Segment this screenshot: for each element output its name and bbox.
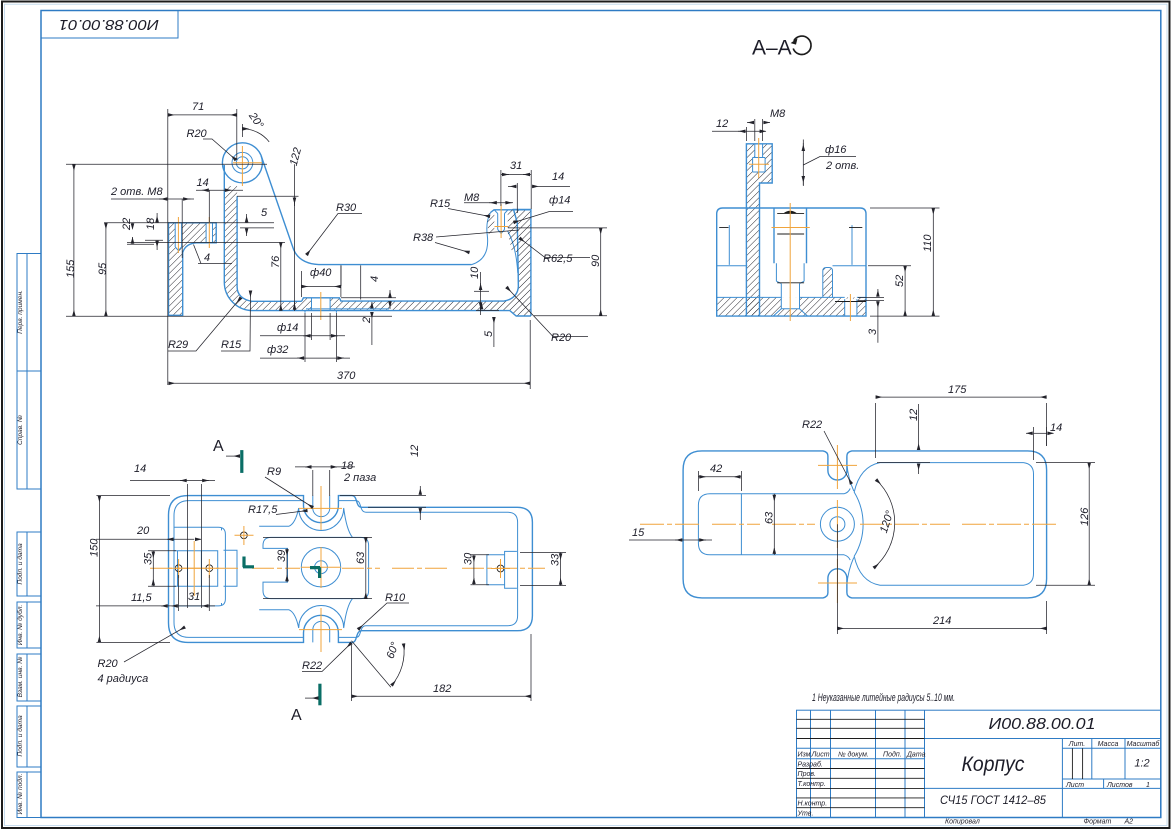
- svg-text:Инв. № дубл.: Инв. № дубл.: [16, 605, 24, 646]
- flange hole centerline: [758, 138, 760, 178]
- M8 hole 1 (left wall): [175, 223, 181, 251]
- svg-text:ф14: ф14: [549, 195, 570, 207]
- dim 4 gap: [194, 245, 233, 265]
- outer contour with slot notches: [683, 451, 1047, 598]
- svg-text:А: А: [291, 707, 302, 724]
- right wall top face and M8 hole: [491, 210, 531, 213]
- dim 20 deg: [242, 110, 269, 142]
- label R15 bottom: [221, 291, 251, 352]
- label R9: [265, 466, 313, 508]
- svg-text:R22: R22: [802, 419, 822, 431]
- dim 10: [469, 266, 489, 315]
- svg-text:71: 71: [192, 101, 204, 113]
- boss left side and R38 fillet: [472, 213, 491, 265]
- svg-text:А–А: А–А: [752, 37, 792, 60]
- thread runout mark: [784, 211, 797, 214]
- title block: [797, 710, 1161, 825]
- inner boss outline: [823, 268, 833, 298]
- dim 155: [65, 164, 392, 316]
- dim 20: [96, 525, 201, 539]
- svg-text:Масштаб: Масштаб: [1127, 740, 1161, 748]
- M8 hole in flange: [755, 144, 763, 158]
- svg-text:R22: R22: [302, 660, 322, 672]
- dim 42: [698, 463, 741, 491]
- svg-text:№ докум.: № докум.: [838, 751, 869, 759]
- dim 35: [143, 551, 177, 587]
- svg-text:18: 18: [341, 460, 354, 472]
- svg-text:5: 5: [483, 330, 495, 337]
- svg-text:90: 90: [590, 254, 602, 267]
- right pad: [487, 551, 517, 588]
- dim 12: [877, 404, 930, 474]
- tab with R20 hole: [261, 156, 471, 265]
- svg-text:Формат: Формат: [1084, 819, 1112, 826]
- svg-text:Инв. № подл.: Инв. № подл.: [16, 773, 24, 814]
- svg-text:R30: R30: [336, 202, 357, 214]
- svg-text:12: 12: [409, 445, 421, 457]
- label R20 top: [187, 128, 237, 160]
- label R20 bottom right: [507, 287, 589, 344]
- bottom plate top edge: [717, 296, 866, 298]
- dim 11,5 and 31: [96, 575, 215, 611]
- label phi14 right: [514, 195, 574, 223]
- svg-text:Изм.: Изм.: [798, 752, 813, 759]
- dim 2 step: [361, 302, 373, 345]
- svg-text:Разраб.: Разраб.: [798, 760, 823, 768]
- dim 30: [463, 552, 490, 585]
- dim 60 deg: [352, 640, 405, 687]
- right pad hole: [497, 565, 504, 572]
- label R29: [168, 298, 241, 352]
- svg-text:150: 150: [89, 538, 101, 557]
- svg-text:ф16: ф16: [825, 144, 847, 156]
- svg-text:Утв.: Утв.: [797, 810, 814, 817]
- svg-text:12: 12: [908, 409, 920, 421]
- svg-text:R20: R20: [551, 332, 572, 344]
- svg-text:63: 63: [764, 511, 776, 524]
- svg-text:А: А: [213, 438, 224, 455]
- central boss: [301, 548, 340, 587]
- svg-text:182: 182: [433, 683, 451, 695]
- bore thread lines black: [777, 213, 804, 282]
- svg-text:Подп. и дата: Подп. и дата: [16, 543, 24, 585]
- svg-text:R20: R20: [187, 128, 208, 140]
- tab left edge / rib: [224, 165, 531, 316]
- right phi16 hole: [845, 299, 857, 316]
- small hole upper middle: [241, 532, 248, 539]
- dim 3: [858, 289, 884, 343]
- base top with phi40 boss: [302, 210, 531, 317]
- svg-text:15: 15: [632, 527, 645, 539]
- circle R20 hole rings: [232, 152, 253, 173]
- svg-text:3: 3: [867, 328, 879, 335]
- slot side fillets to waist: [847, 457, 854, 592]
- section label A-A with rotation symbol: [752, 36, 811, 59]
- svg-text:370: 370: [337, 370, 356, 382]
- inner contour: [174, 501, 518, 638]
- svg-text:95: 95: [97, 262, 109, 275]
- pad hole 2: [206, 565, 213, 572]
- dim 95: [97, 223, 274, 316]
- dim 370: [169, 320, 531, 389]
- dim 18 slot: [295, 460, 376, 496]
- dim 14: [1026, 422, 1062, 460]
- top-left document number box: [41, 11, 178, 39]
- svg-text:R17,5: R17,5: [248, 504, 278, 516]
- left channel: [698, 489, 850, 561]
- svg-text:R29: R29: [168, 339, 188, 351]
- dim 76: [270, 242, 282, 310]
- base hole centerline orange: [320, 292, 322, 320]
- inner right wall edge: [504, 210, 518, 302]
- central boss circles: [820, 507, 854, 541]
- central opening with 39 notch: [263, 537, 369, 598]
- dim 182: [352, 634, 532, 701]
- title block texts: [797, 740, 1161, 826]
- svg-text:2 отв.: 2 отв.: [825, 160, 859, 172]
- dim 71: [168, 101, 237, 385]
- svg-text:214: 214: [932, 615, 951, 627]
- orange centerlines: [150, 567, 545, 569]
- svg-text:14: 14: [197, 177, 209, 189]
- svg-text:ф32: ф32: [267, 344, 288, 356]
- svg-text:Перв. примен.: Перв. примен.: [17, 290, 24, 334]
- black row lines in left table: [797, 719, 1083, 807]
- M8 hole 2 (boss): [206, 223, 212, 243]
- dim 120 deg: [874, 480, 897, 568]
- background boss edges seen through section: [341, 265, 361, 299]
- svg-text:Корпус: Корпус: [962, 753, 1025, 776]
- svg-text:R20: R20: [98, 658, 119, 670]
- svg-text:М8: М8: [770, 108, 786, 120]
- svg-text:63: 63: [355, 551, 367, 564]
- dim 214: [837, 524, 1046, 634]
- dim 90 right: [508, 228, 607, 316]
- label phi16 2 otv: [803, 140, 859, 187]
- dim 14 right: [508, 171, 570, 213]
- label R10: [358, 592, 409, 630]
- svg-text:30: 30: [463, 552, 475, 565]
- top slot boss: [259, 508, 352, 537]
- hatched bottom plate: [717, 297, 866, 316]
- small hatch near M8 boss: [487, 210, 518, 253]
- left pocket: [174, 527, 225, 606]
- svg-text:2 паза: 2 паза: [343, 472, 376, 484]
- label R30: [307, 202, 363, 255]
- svg-text:1 Неуказанные литейные радиусы: 1 Неуказанные литейные радиусы 5..10 мм.: [812, 692, 955, 704]
- body outline: [717, 208, 866, 316]
- svg-text:175: 175: [948, 384, 967, 396]
- svg-text:1: 1: [1146, 782, 1150, 789]
- outer blue lines of title block: [797, 710, 1161, 817]
- svg-text:Взам. инв. №: Взам. инв. №: [17, 657, 24, 698]
- svg-text:2 отв. М8: 2 отв. М8: [110, 186, 163, 198]
- label R62,5: [520, 238, 591, 265]
- svg-text:R62,5: R62,5: [543, 253, 573, 265]
- dim 14 left: [196, 177, 243, 190]
- svg-text:42: 42: [710, 463, 722, 475]
- dim M8 flange: [747, 108, 786, 141]
- dim phi14 bottom: [260, 313, 345, 340]
- svg-text:Лист: Лист: [1065, 782, 1084, 789]
- label R38: [413, 230, 519, 253]
- svg-text:R9: R9: [267, 466, 281, 478]
- dim 63: [764, 494, 776, 555]
- dim 126: [1036, 463, 1095, 586]
- dim phi40: [301, 265, 341, 297]
- orange centerlines: [640, 523, 1058, 525]
- svg-text:110: 110: [922, 234, 934, 252]
- svg-text:4 радиуса: 4 радиуса: [98, 673, 149, 685]
- blue outline: left wall + boss: [169, 223, 217, 315]
- dim 18: [145, 213, 163, 250]
- svg-text:31: 31: [510, 160, 522, 172]
- left pad: [174, 551, 218, 587]
- svg-text:Подп.: Подп.: [883, 751, 902, 759]
- svg-text:18: 18: [145, 217, 157, 230]
- svg-text:126: 126: [1079, 507, 1091, 526]
- dim 31 right: [501, 160, 531, 209]
- svg-text:Справ. №: Справ. №: [17, 415, 24, 445]
- dim 15: [629, 527, 712, 540]
- svg-text:Пров.: Пров.: [798, 771, 817, 778]
- dim 63: [263, 537, 372, 598]
- svg-text:Лист: Лист: [811, 752, 830, 759]
- svg-text:14: 14: [552, 171, 564, 183]
- svg-text:Подп. и дата: Подп. и дата: [16, 715, 24, 757]
- svg-text:10: 10: [469, 266, 481, 279]
- svg-text:R10: R10: [385, 592, 406, 604]
- hatched inner boss right: [823, 268, 833, 298]
- svg-text:1:2: 1:2: [1134, 758, 1149, 770]
- dim 150: [89, 496, 171, 643]
- pad hole 1: [175, 565, 182, 572]
- svg-text:14: 14: [1050, 422, 1062, 434]
- section A marks: [240, 450, 243, 473]
- dim 33: [520, 553, 566, 586]
- hole centerlines orange: [178, 217, 209, 253]
- svg-text:ф40: ф40: [310, 267, 332, 279]
- label R22: [802, 419, 852, 484]
- left pocket: [717, 225, 748, 266]
- dim 5 left: [240, 207, 274, 236]
- svg-text:35: 35: [143, 552, 155, 565]
- svg-text:R15: R15: [430, 198, 451, 210]
- svg-text:И00.88.00.01: И00.88.00.01: [989, 716, 1096, 733]
- svg-text:4: 4: [369, 276, 381, 282]
- right pocket: [833, 225, 867, 266]
- svg-text:22: 22: [121, 218, 133, 231]
- hatched rib and top flange: [746, 144, 772, 316]
- R62.5 arc: [508, 231, 518, 273]
- svg-text:Листов: Листов: [1106, 782, 1133, 789]
- svg-text:155: 155: [65, 259, 77, 278]
- label R20 4 radiusa: [98, 627, 186, 685]
- phi14 hole in base: [305, 298, 336, 313]
- dim 52: [868, 266, 911, 316]
- svg-text:5: 5: [261, 207, 268, 219]
- dim 39: [276, 548, 288, 582]
- svg-text:Т.контр.: Т.контр.: [798, 781, 826, 788]
- svg-text:33: 33: [550, 553, 562, 566]
- outer contour: [169, 496, 533, 643]
- svg-text:4: 4: [204, 252, 210, 264]
- svg-text:Копировал: Копировал: [945, 819, 980, 826]
- left margin boxes: [17, 254, 41, 818]
- bottom slot boss: [259, 599, 352, 628]
- flange and rib outline: [746, 144, 772, 316]
- dim 175: [876, 384, 1047, 458]
- svg-text:СЧ15 ГОСТ 1412–85: СЧ15 ГОСТ 1412–85: [940, 793, 1046, 807]
- dim 5 right foot: [476, 303, 499, 347]
- label M8 right: [464, 192, 513, 204]
- svg-text:Масса: Масса: [1098, 741, 1119, 748]
- label R17,5: [248, 504, 308, 516]
- inner contour right section with waist arc: [854, 463, 1033, 586]
- dim 14 top: [130, 463, 215, 608]
- hatched left wall with boss: [169, 223, 217, 315]
- dim phi32 bottom: [260, 313, 350, 362]
- central bore: [774, 208, 807, 263]
- svg-text:12: 12: [716, 118, 728, 130]
- svg-text:Лит.: Лит.: [1068, 741, 1085, 748]
- svg-text:ф14: ф14: [277, 322, 298, 334]
- svg-text:31: 31: [188, 591, 200, 603]
- dim 122: [237, 146, 304, 311]
- svg-text:И00.88.00.01: И00.88.00.01: [59, 16, 159, 33]
- svg-text:R38: R38: [413, 232, 434, 244]
- label R15 right: [430, 198, 490, 217]
- svg-text:Н.контр.: Н.контр.: [798, 801, 828, 808]
- svg-text:А2: А2: [1124, 819, 1134, 826]
- svg-text:11,5: 11,5: [131, 592, 152, 604]
- phi16 counterbore: [753, 158, 766, 173]
- dim 12 step: [340, 445, 426, 520]
- svg-text:Дата: Дата: [906, 752, 926, 759]
- svg-text:R15: R15: [221, 339, 242, 351]
- dim 12: [712, 118, 766, 141]
- pad tongue through pocket wall: [224, 550, 238, 586]
- svg-text:2: 2: [361, 317, 373, 324]
- label R22: [302, 643, 352, 672]
- svg-text:39: 39: [276, 550, 288, 562]
- svg-text:14: 14: [134, 463, 146, 475]
- svg-text:76: 76: [270, 255, 282, 268]
- circle center orange cross: [233, 146, 262, 186]
- svg-text:20: 20: [136, 525, 150, 537]
- svg-text:52: 52: [894, 275, 906, 287]
- hatched rib, base and right wall: [224, 186, 531, 316]
- dim 110: [870, 208, 940, 316]
- label 2 otv M8: [110, 186, 209, 258]
- bore centerline: [789, 203, 791, 321]
- dim 22: [121, 218, 285, 244]
- dim 4 boss: [341, 276, 396, 309]
- svg-text:М8: М8: [464, 192, 480, 204]
